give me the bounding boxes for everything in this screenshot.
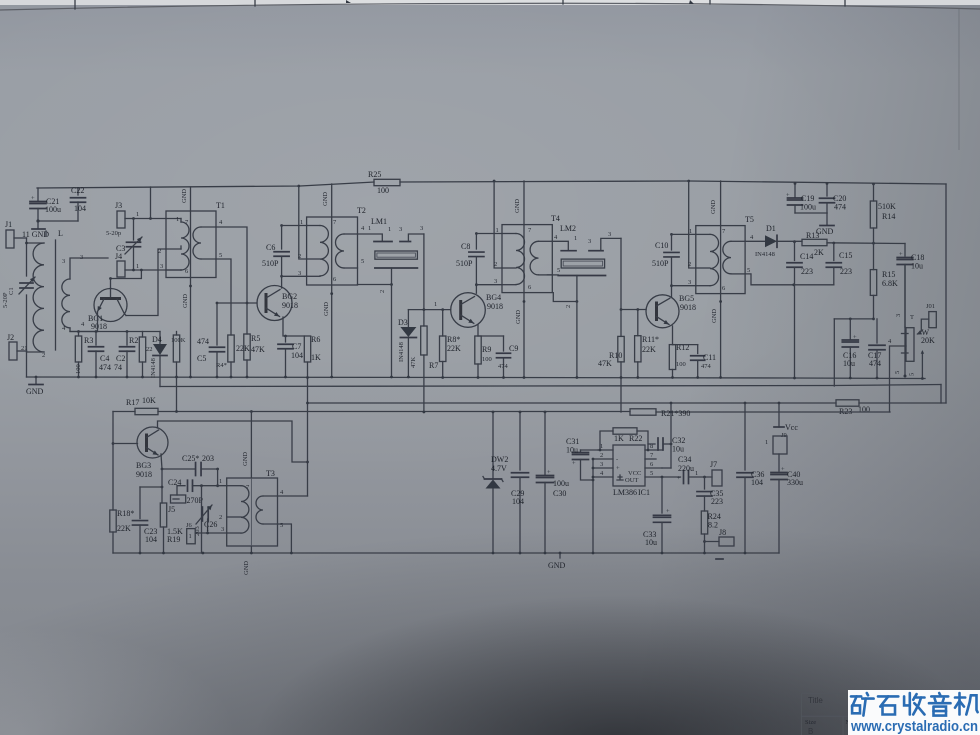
svg-text:D3: D3 [398,318,408,327]
diode D4 IN4148 [146,332,167,387]
wire C19 C20 ground node [795,213,827,225]
net GND below T4 [515,310,522,324]
svg-text:4: 4 [554,234,558,241]
svg-text:+: + [786,192,790,199]
svg-text:3: 3 [608,231,611,238]
resistor R9 [475,336,492,379]
svg-text:1: 1 [765,439,768,446]
transistor BG2 [257,286,298,321]
resistor R22 [599,428,650,452]
svg-text:+: + [781,466,785,473]
small mark b [689,0,694,4]
resistor R14 [870,183,896,244]
resistor R11* [635,310,659,379]
svg-text:3: 3 [160,263,163,270]
svg-text:3: 3 [588,238,591,245]
wire T2 pin3 [282,275,307,277]
resistor R17 [126,396,158,415]
capacitor C33 [643,477,671,554]
resistor R5 [244,302,265,379]
ic LM386 IC1 [593,443,662,497]
power Vcc connector J9 [765,402,798,471]
resistor R13 [802,231,827,257]
svg-text:2: 2 [298,253,301,260]
svg-text:C6: C6 [266,243,275,252]
svg-text:2: 2 [600,452,603,459]
wire T3 shield [250,410,253,554]
svg-text:www.crystalradio.cn: www.crystalradio.cn [850,719,978,735]
svg-text:104: 104 [145,535,157,544]
wire BG4 collector [475,285,477,294]
svg-text:GND: GND [548,561,566,570]
svg-text:GND: GND [322,192,329,206]
watermark text kuang shi shou yin ji [851,693,978,716]
svg-text:BG3: BG3 [136,461,151,470]
svg-text:510K: 510K [878,202,896,211]
svg-text:3: 3 [221,526,224,533]
capacitor C17 [868,319,885,380]
capacitor C18 [897,251,924,327]
svg-text:100: 100 [75,364,82,374]
svg-text:VCC: VCC [628,470,641,477]
svg-text:R8*: R8* [447,335,460,344]
svg-text:J01: J01 [926,303,935,310]
resistor R24 [701,511,721,554]
svg-text:22: 22 [146,346,153,353]
svg-text:R21*390: R21*390 [661,409,690,418]
wire T4 pin5 [547,267,560,275]
svg-text:OUT: OUT [625,477,638,484]
wire BG5 collector [671,286,673,297]
svg-text:22K: 22K [447,344,461,353]
svg-text:510P: 510P [456,259,473,268]
wire T2 pin2 dropper [297,185,306,259]
resistor R21 [630,409,690,418]
connector J2 [7,333,45,377]
connector J4 [115,252,139,277]
capacitor C21 [30,188,61,221]
svg-text:100u: 100u [800,203,816,212]
resistor R25 [368,170,400,195]
svg-text:100u: 100u [45,205,61,214]
svg-text:6.8K: 6.8K [882,279,898,288]
svg-text:1: 1 [189,533,192,540]
variable capacitor C1 [2,277,35,308]
svg-text:1: 1 [388,226,391,233]
watermark text www.crystalradio.cn [850,719,978,735]
connector J7 [710,460,722,486]
table tick 4 [709,0,711,4]
wire T5 pin2 dropper [687,180,696,268]
svg-text:5: 5 [557,267,560,274]
wire LM1 out to BG4 base [408,234,450,311]
svg-text:GND: GND [242,452,249,466]
svg-text:8.2: 8.2 [708,521,718,530]
wire T5 shield [719,181,722,379]
svg-text:C34: C34 [678,455,691,464]
wire T1 shield [189,187,192,378]
svg-text:104: 104 [291,351,303,360]
svg-text:3: 3 [895,314,902,317]
capacitor C10 [652,233,679,287]
svg-text:7: 7 [185,219,189,226]
svg-text:GND: GND [710,200,717,214]
inductor L secondary [62,254,108,332]
net GND above T5 [710,200,717,214]
svg-text:J7: J7 [710,460,717,469]
variable capacitor C3 [116,219,142,271]
svg-text:10u: 10u [843,359,855,368]
top bus wire (GND rail) [37,181,946,188]
svg-text:3: 3 [494,278,497,285]
wire BG3 emitter [161,454,164,503]
svg-text:+: + [547,469,551,476]
capacitor C16 [842,319,858,380]
resistor R15 [870,243,898,319]
svg-text:BG4: BG4 [486,293,501,302]
svg-text:510P: 510P [652,259,669,268]
svg-text:GND: GND [816,227,834,236]
svg-text:1: 1 [219,478,222,485]
filter LM1 [371,217,424,268]
svg-text:R22: R22 [629,434,642,443]
wire BG1 collector [126,249,166,316]
wire LM2 to BG5 base [620,238,646,311]
svg-text:510P: 510P [262,259,279,268]
svg-text:J8: J8 [719,528,726,537]
svg-text:+: + [666,508,670,515]
wire BG5 emitter [672,326,674,345]
svg-text:3: 3 [399,226,402,233]
svg-text:2: 2 [42,352,45,359]
AGC wire [113,411,890,414]
svg-text:R17: R17 [126,398,139,407]
transistor BG3 [136,427,168,479]
svg-text:R18*: R18* [117,509,134,518]
svg-text:474: 474 [701,363,712,370]
wire T5 pin5 AGC [745,267,834,286]
svg-text:7: 7 [528,227,532,234]
svg-text:1: 1 [368,225,371,232]
capacitor C32 [648,436,685,454]
svg-text:GND: GND [711,309,718,323]
wire BG2 emitter [283,317,304,336]
svg-text:2: 2 [158,248,161,255]
svg-text:T5: T5 [745,215,754,224]
net GND above T4 [514,199,521,213]
svg-text:100: 100 [676,361,686,368]
bottom ground wire [113,552,779,554]
svg-text:10u: 10u [672,445,684,454]
svg-text:+: + [899,251,903,258]
svg-text:6: 6 [650,461,654,468]
wire T1 pin5 to R4 [216,252,231,335]
svg-text:3: 3 [80,254,83,261]
svg-text:2: 2 [688,261,691,268]
svg-text:C14: C14 [800,252,813,261]
svg-text:J2: J2 [7,333,14,342]
svg-text:3: 3 [600,461,603,468]
transformer T4 [494,214,560,293]
svg-text:R3: R3 [84,336,93,345]
svg-text:6: 6 [185,268,189,275]
resistor R8* [440,310,462,379]
svg-text:474: 474 [498,363,509,370]
svg-text:474: 474 [197,337,209,346]
resistor R19 [160,503,183,554]
net GND above T3 [242,452,249,466]
svg-text:R4*: R4* [216,362,227,369]
wire T3 pin5 [278,522,293,554]
resistor R12 [669,343,689,379]
svg-text:4: 4 [361,225,365,232]
svg-text:R15: R15 [882,270,895,279]
svg-text:22K: 22K [117,524,131,533]
capacitor C9 [478,336,518,379]
net GND above T1 [181,189,188,203]
svg-text:100u: 100u [553,479,569,488]
net GND below T2 [323,302,330,316]
svg-text:+: + [853,334,857,341]
wire T5 pin3 [672,285,696,287]
capacitor C19 [786,182,816,213]
capacitor C25* [162,454,219,476]
svg-text:22K: 22K [236,344,250,353]
resistor R18* [110,509,135,553]
page edge shadow [958,9,960,150]
svg-text:B: B [808,727,813,735]
capacitor C6 [262,224,289,278]
capacitor C40 [771,466,803,553]
svg-text:5: 5 [909,373,916,376]
svg-text:10K: 10K [142,396,156,405]
svg-text:1: 1 [176,216,179,223]
svg-text:4: 4 [750,234,754,241]
connector J3 [106,201,139,237]
capacitor C20 [820,182,847,213]
connector J6 [187,519,227,544]
ground stub bottom [548,552,566,570]
svg-text:1K: 1K [614,434,624,443]
resistor R6 [304,335,321,362]
svg-text:Vcc: Vcc [785,423,798,432]
wire T1 pin4 to BG2 base [216,219,247,303]
connector J1 [5,220,27,248]
svg-text:9018: 9018 [91,322,107,331]
svg-text:Size: Size [805,719,816,726]
svg-text:6: 6 [528,284,532,291]
small mark a [346,0,351,3]
resistor R23 [836,400,870,416]
svg-text:330u: 330u [787,478,803,487]
svg-text:1: 1 [136,263,139,270]
svg-text:4: 4 [81,321,85,328]
capacitor C29 [511,411,529,555]
svg-text:9018: 9018 [136,470,152,479]
svg-text:10u: 10u [566,446,578,455]
svg-text:IN4148: IN4148 [398,342,405,362]
ground stub GND [22,221,49,239]
svg-text:D1: D1 [766,224,776,233]
svg-text:3: 3 [62,258,65,265]
wire volume top [904,244,906,257]
wire BG1 base [109,270,141,288]
svg-text:+: + [677,475,681,482]
svg-text:104: 104 [74,204,86,213]
wire J3 node [132,187,166,220]
svg-text:474: 474 [869,359,881,368]
svg-text:C5: C5 [197,354,206,363]
svg-text:GND: GND [26,387,44,396]
wire T2 shield [330,184,333,378]
svg-text:104: 104 [751,478,763,487]
svg-text:T2: T2 [357,206,366,215]
potentiometer W 20K [895,265,935,378]
inductor L primary [25,242,44,352]
audio supply wire [308,402,947,404]
ground symbol bottom left [26,376,44,396]
svg-text:C4: C4 [100,354,109,363]
wire R13 output [793,240,905,244]
svg-text:R14: R14 [882,212,895,221]
transformer T2 [298,206,366,285]
svg-text:C15: C15 [839,251,852,260]
svg-text:47K: 47K [251,345,265,354]
svg-text:R5: R5 [251,334,260,343]
resistor R3 [75,330,93,378]
svg-text:+: + [31,195,35,202]
svg-text:4: 4 [280,489,284,496]
svg-text:Title: Title [808,696,823,705]
wire T2 pin5 label [361,258,364,265]
net GND below T3 [243,561,250,575]
svg-text:C30: C30 [553,489,566,498]
svg-text:223: 223 [711,497,723,506]
svg-text:22K: 22K [642,345,656,354]
svg-text:J1: J1 [5,220,12,229]
capacitor C30 [537,411,570,555]
capacitor C36 [737,402,764,555]
diode D3 IN4148 [398,310,416,379]
svg-text:-: - [616,456,618,463]
capacitor C8 [456,232,484,286]
svg-text:1: 1 [206,526,209,533]
svg-text:T3: T3 [266,469,275,478]
svg-text:R25: R25 [368,170,381,179]
watermark crystalradio [848,690,980,735]
svg-text:2: 2 [565,305,572,308]
capacitor C15 [826,243,852,285]
svg-text:3: 3 [420,225,423,232]
svg-text:10u: 10u [645,538,657,547]
capacitor C24 [168,478,227,495]
table tick 5 [844,0,846,6]
svg-text:1: 1 [695,470,698,477]
wire C21-C22 node [36,219,78,222]
resistor R2 [129,332,146,379]
capacitor C31 [566,437,598,481]
svg-text:3: 3 [688,279,691,286]
capacitor C23 [133,486,164,555]
svg-text:T1: T1 [216,201,225,210]
wire T2 pin1 [282,225,307,227]
svg-text:2: 2 [379,290,386,293]
svg-text:+: + [572,460,576,467]
svg-text:GND: GND [323,302,330,316]
table tick 1 [74,0,76,9]
svg-text:IN4148: IN4148 [150,358,157,378]
net GND below T1 [182,294,189,308]
net GND above T2 [322,192,329,206]
wire T2 pin4 to LM1 [358,225,383,241]
svg-text:LM386: LM386 [613,488,637,497]
svg-text:474: 474 [99,363,111,372]
wire BG2 collector [281,276,283,288]
svg-text:7: 7 [246,484,250,491]
svg-text:GND: GND [515,310,522,324]
svg-text:2: 2 [494,261,497,268]
wire C25 to T3 node [216,469,219,487]
wire T3 pin4 [278,489,308,496]
svg-text:5: 5 [894,371,901,374]
core line L [56,229,64,350]
svg-text:L: L [58,229,63,238]
svg-text:4: 4 [600,470,604,477]
svg-text:1: 1 [300,219,303,226]
wire R6 to T3 pin4 column [306,362,309,496]
wire BG2 base [217,302,257,304]
svg-text:5: 5 [361,258,364,265]
svg-text:4: 4 [219,219,223,226]
svg-text:1: 1 [689,228,692,235]
wire LM1 pin2 [358,268,393,378]
svg-text:9018: 9018 [487,302,503,311]
wire BG4 emitter [477,325,479,336]
svg-text:5: 5 [280,522,283,529]
net GND below T5 [711,309,718,323]
transistor BG5 [646,294,696,328]
capacitor C4 [89,330,112,378]
svg-text:5: 5 [219,252,222,259]
svg-text:5-20p: 5-20p [106,230,121,237]
svg-text:2: 2 [219,514,222,521]
svg-text:223: 223 [801,267,813,276]
page-edge strip [0,0,980,10]
svg-text:J3: J3 [115,201,122,210]
svg-text:47K: 47K [410,357,417,369]
svg-text:20K: 20K [921,336,935,345]
svg-text:7: 7 [333,219,337,226]
table tick 3 [562,0,564,4]
svg-text:BG2: BG2 [282,292,297,301]
svg-text:BG5: BG5 [679,294,694,303]
svg-text:220u: 220u [678,464,694,473]
zener DW2 [483,411,508,555]
wire T4 pin3 [476,284,502,286]
svg-text:104: 104 [512,497,524,506]
svg-text:10u: 10u [911,262,923,271]
svg-text:5: 5 [650,470,653,477]
svg-text:C8: C8 [461,242,470,251]
transistor BG1 [88,288,127,331]
svg-text:IN4148: IN4148 [755,251,775,258]
wire J4 node [132,269,181,272]
wire R17 left to BG3 base [112,412,138,511]
capacitor C35 [697,477,723,511]
svg-text:3: 3 [298,270,301,277]
svg-text:1: 1 [574,235,577,242]
svg-text:9018: 9018 [282,301,298,310]
